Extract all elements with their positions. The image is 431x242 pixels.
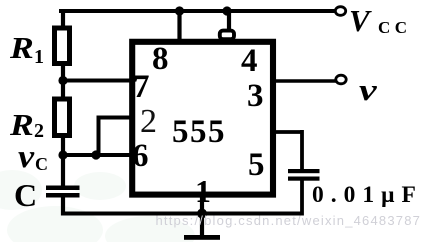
U1 555 label [172, 116, 226, 149]
net VCC subscript CC [378, 19, 412, 36]
wire 0.01uF bottom to ground rail [300, 181, 304, 216]
ground [184, 235, 220, 240]
wire R1 bottom to R2 top [61, 63, 65, 99]
resistor R2 [55, 99, 70, 136]
wire C bottom to ground rail [61, 198, 65, 216]
net VCC label [349, 5, 370, 36]
pin 6 label [132, 140, 149, 173]
terminal v output [336, 75, 346, 84]
wire vC node to pin 6 [63, 153, 133, 157]
wire pin 8 vertical [177, 11, 181, 42]
wire pin 2 horizontal [97, 116, 134, 120]
wire left vertical to R1 top [61, 9, 65, 28]
pin 2 label [140, 105, 157, 139]
pin 5 label [248, 149, 265, 182]
pin 3 label [247, 80, 264, 113]
pin 1 label [195, 175, 211, 207]
wire R2 bottom to vC node [61, 136, 65, 158]
terminal VCC [335, 7, 345, 16]
node junction top rail pin4 [222, 6, 231, 15]
node vC junction [58, 150, 67, 159]
wire pin 2 vertical [97, 118, 101, 156]
wire bottom ground rail [61, 212, 302, 216]
op-amp U1 555 IC box [132, 42, 273, 195]
wire pin 5 down to capacitor [300, 130, 304, 169]
resistor R2 subscript 2 [34, 121, 44, 141]
pin 4 label [241, 45, 258, 78]
watermark blobs [0, 168, 200, 242]
wire vC node to capacitor C [61, 155, 65, 186]
capacitor C top plate [46, 186, 80, 191]
pin 8 label [152, 43, 169, 76]
capacitor C label [14, 179, 37, 211]
node junction top rail pin8 [175, 6, 184, 15]
resistor R1 label [10, 32, 34, 63]
wire pin 5 horizontal [273, 130, 302, 134]
watermark text [156, 214, 422, 228]
wire pin 4 vertical drop [227, 11, 231, 31]
node vC label [18, 141, 34, 174]
resistor R2 label [10, 109, 34, 140]
node junction below R1 [58, 76, 67, 85]
capacitor 0.01uF bottom plate [288, 177, 320, 181]
node junction pin2 loop [91, 150, 100, 159]
node vC subscript C [35, 155, 48, 173]
net v output label [359, 74, 377, 105]
pin 7 label [133, 71, 150, 104]
wire pin 3 output [273, 79, 336, 83]
wire pin 1 vertical [200, 194, 204, 236]
capacitor C bottom plate [46, 193, 80, 198]
pin 4 hook loop [220, 31, 234, 40]
resistor R1 subscript 1 [34, 47, 44, 67]
resistor R1 [55, 28, 70, 64]
capacitor 0.01uF value label [312, 184, 423, 208]
node junction ground rail [197, 209, 207, 219]
capacitor 0.01uF top plate [288, 169, 320, 173]
wire top rail [59, 9, 335, 13]
wire pin 7 [63, 79, 133, 83]
